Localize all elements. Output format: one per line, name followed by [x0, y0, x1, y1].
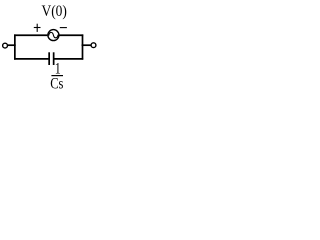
- svg-text:V(0): V(0): [42, 3, 67, 20]
- svg-text:Cs: Cs: [50, 76, 63, 93]
